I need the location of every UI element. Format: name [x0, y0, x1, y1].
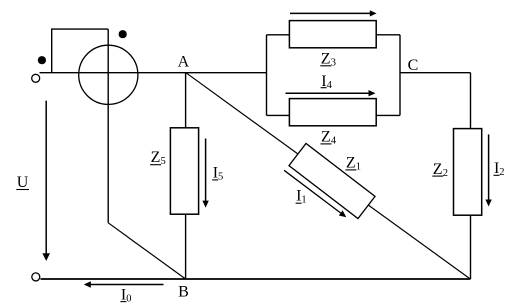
svg-text:Z: Z — [321, 129, 331, 146]
svg-text:5: 5 — [218, 171, 223, 182]
svg-text:C: C — [408, 57, 419, 74]
svg-text:2: 2 — [443, 168, 448, 179]
svg-text:5: 5 — [161, 156, 166, 167]
svg-text:B: B — [178, 284, 189, 301]
svg-text:U: U — [17, 174, 29, 191]
svg-text:A: A — [178, 54, 190, 71]
svg-text:3: 3 — [331, 57, 336, 68]
svg-text:Z: Z — [321, 50, 331, 67]
svg-text:4: 4 — [327, 80, 333, 91]
svg-text:Z: Z — [346, 154, 356, 171]
svg-text:Z: Z — [151, 149, 161, 166]
svg-text:Z: Z — [433, 161, 443, 178]
svg-text:4: 4 — [331, 136, 337, 147]
svg-text:1: 1 — [301, 195, 306, 206]
svg-text:0: 0 — [126, 293, 131, 304]
svg-text:1: 1 — [356, 161, 361, 172]
svg-text:2: 2 — [499, 167, 504, 178]
